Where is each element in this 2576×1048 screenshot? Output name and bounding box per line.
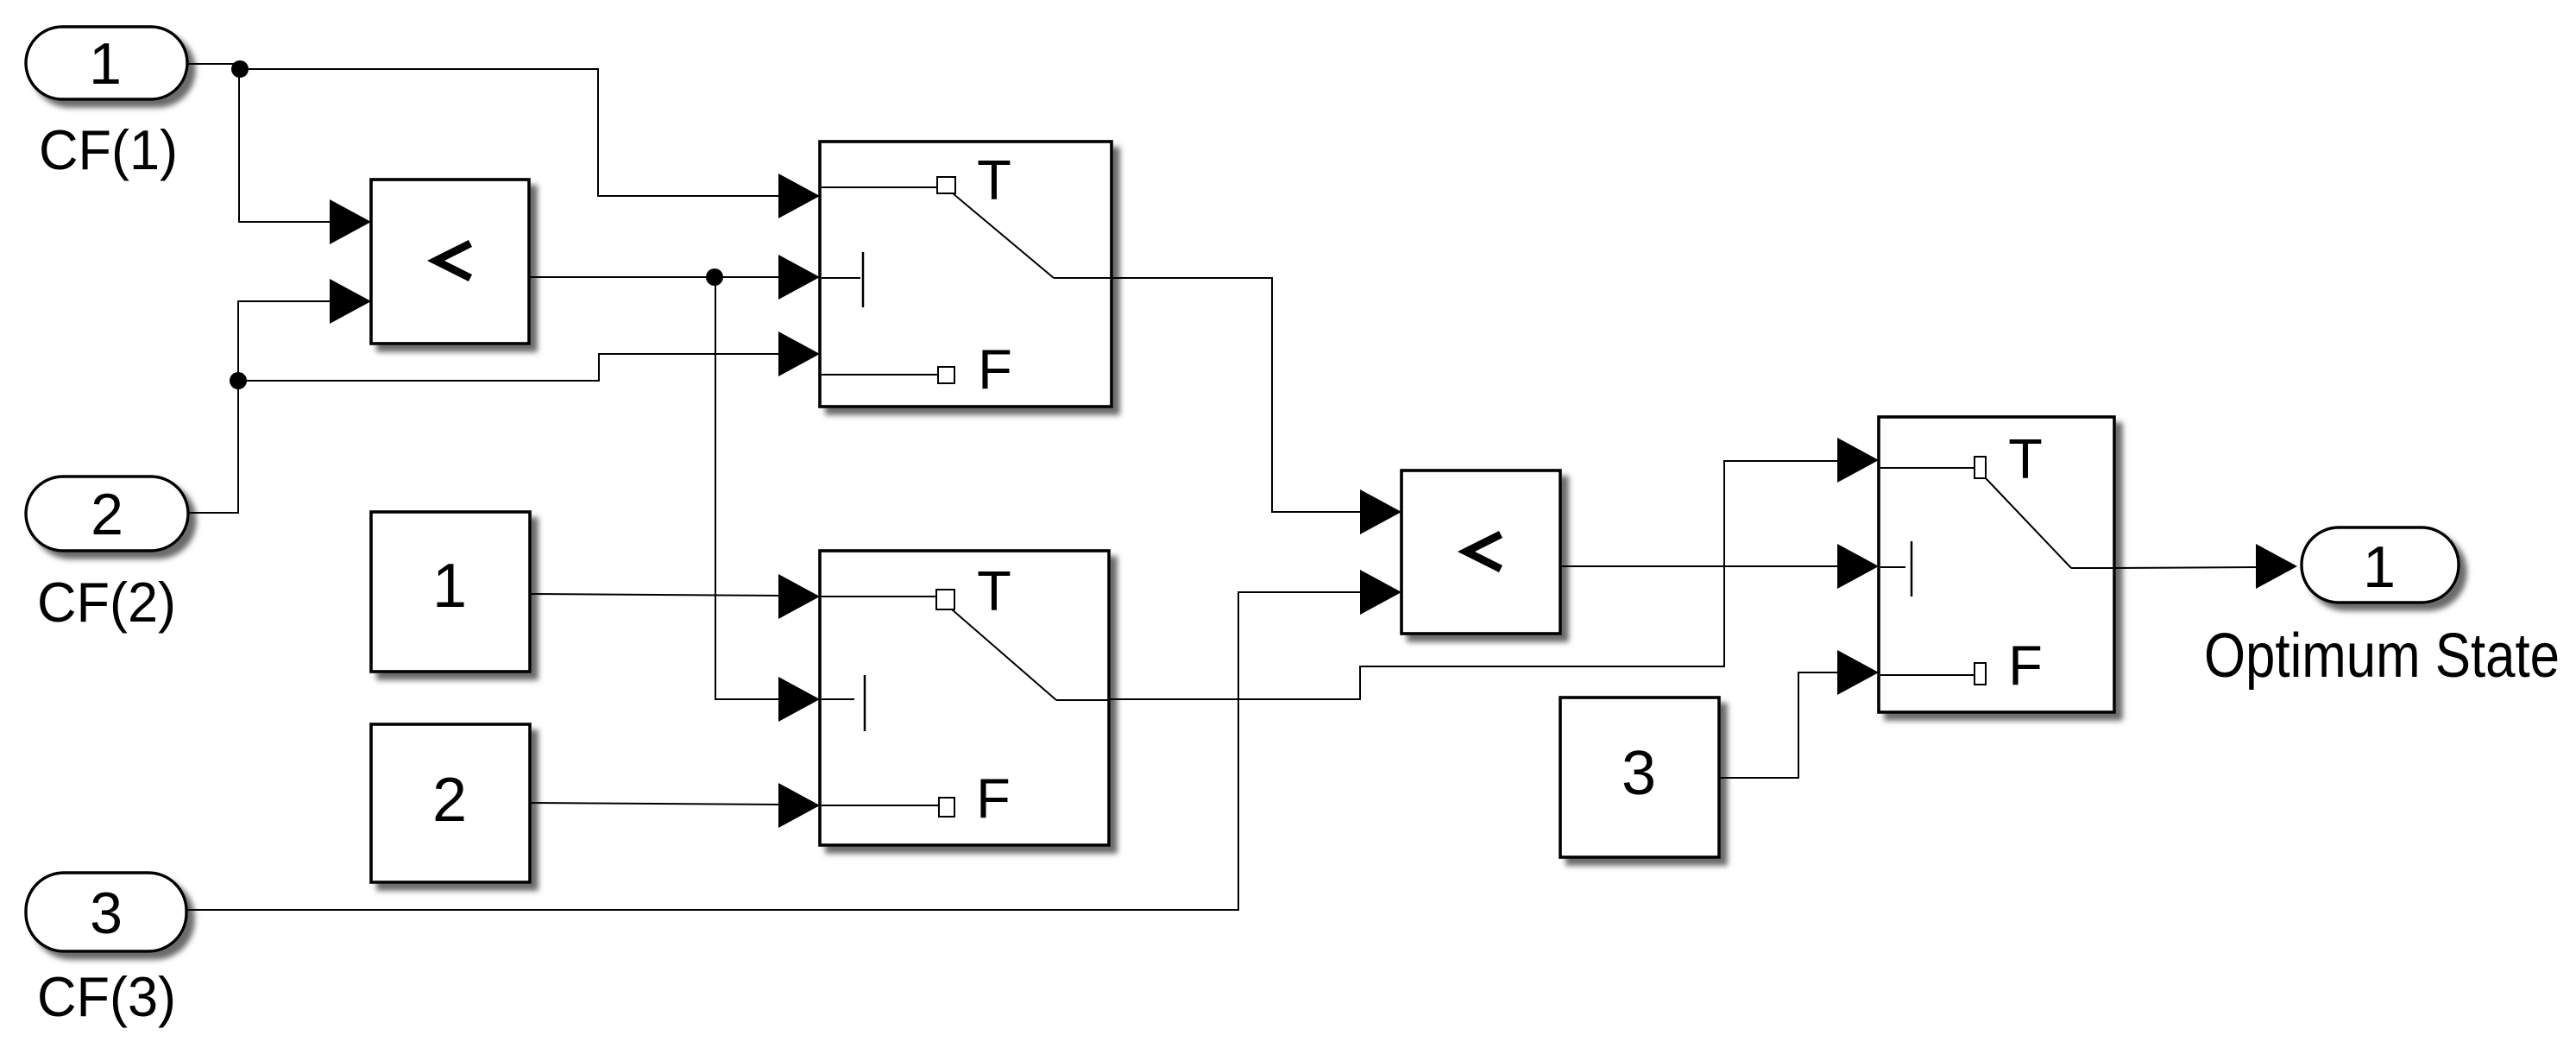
svg-text:Optimum State: Optimum State (2204, 622, 2560, 691)
relational operator U1 (<) (371, 180, 529, 344)
svg-text:CF(3): CF(3) (37, 965, 176, 1028)
svg-text:F: F (978, 338, 1012, 401)
inport 3 (26, 873, 186, 951)
wire junction B to switch SW1 F-input (238, 331, 820, 381)
constant block 1 (371, 512, 530, 672)
constant block 3 (1560, 698, 1719, 857)
svg-text:T: T (2008, 427, 2043, 490)
svg-text:T: T (977, 559, 1011, 622)
switch SW3 (1879, 417, 2114, 712)
wire switch SW2 output to switch SW3 T-input (1109, 438, 1879, 699)
junction node A (from inport1) (231, 60, 249, 78)
switch SW1 (820, 142, 1112, 407)
wire switch SW1 output to relational U2 input 1 (1112, 278, 1401, 534)
svg-text:1: 1 (2363, 534, 2396, 600)
wire inport1 to junction and switch SW1 T-input (187, 64, 820, 218)
switch SW2 (820, 551, 1109, 845)
svg-text:T: T (977, 148, 1011, 211)
svg-text:CF(1): CF(1) (39, 118, 178, 181)
inport 1 (26, 27, 187, 99)
inport 2 (26, 477, 188, 551)
svg-text:3: 3 (90, 881, 123, 946)
svg-text:CF(2): CF(2) (37, 571, 176, 634)
svg-text:1: 1 (432, 552, 467, 621)
junction node C (comparison result) (706, 268, 723, 286)
wire junction C down to switch SW2 control (715, 277, 820, 722)
svg-text:2: 2 (91, 482, 123, 547)
svg-text:3: 3 (1622, 739, 1656, 808)
wire junction A down to relational U1 input 1 (239, 69, 371, 244)
wire relational U1 output to junction C and switch SW1 control (529, 255, 820, 300)
svg-text:F: F (2008, 634, 2043, 697)
wire inport2 up to junction B (188, 381, 238, 513)
svg-text:F: F (976, 767, 1011, 830)
relational operator U2 (<) (1401, 470, 1560, 634)
wire junction B up to relational U1 input 2 (238, 279, 371, 381)
wire constant 2 to switch SW2 F-input (530, 783, 820, 828)
svg-text:2: 2 (432, 766, 467, 835)
outport 1 (2302, 527, 2459, 603)
wire constant 3 to switch SW3 F-input (1719, 650, 1879, 778)
wire inport3 (CF(3)) to relational U2 input 2 (186, 570, 1401, 910)
wire constant 1 to switch SW2 T-input (530, 574, 820, 619)
wire relational U2 output to switch SW3 control (1560, 544, 1879, 589)
junction node B (from inport2) (230, 372, 247, 389)
constant block 2 (371, 724, 530, 882)
svg-text:1: 1 (89, 31, 122, 97)
wire switch SW3 output to outport 1 (2114, 544, 2297, 589)
